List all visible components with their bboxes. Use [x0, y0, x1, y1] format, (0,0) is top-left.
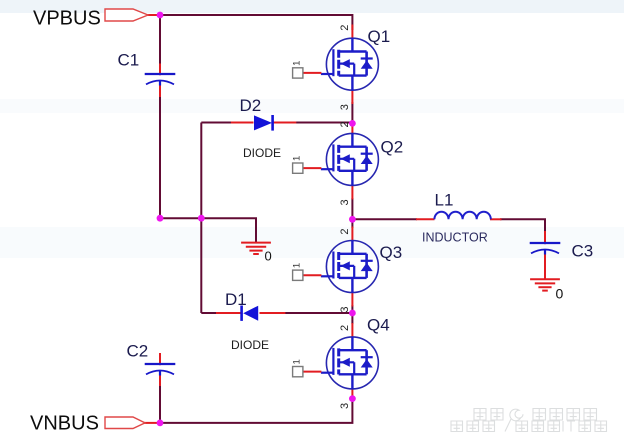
pin stub Q1 drain — [351, 25, 353, 39]
wire node to L1 — [352, 218, 417, 220]
wire D2-D1 left vertical — [200, 123, 202, 314]
pin stub L1 right — [490, 218, 502, 220]
svg-text:2: 2 — [339, 25, 351, 31]
wire Q3 source to D1 node to Q4 drain — [351, 305, 353, 324]
svg-text:D1: D1 — [225, 290, 247, 309]
svg-text:VPBUS: VPBUS — [33, 8, 101, 30]
svg-text:DIODE: DIODE — [243, 146, 281, 160]
wire Q1 source to node — [351, 102, 353, 124]
inductor L1 — [422, 191, 491, 245]
svg-text:2: 2 — [339, 228, 351, 234]
pin stub Q1 source — [351, 90, 353, 104]
pin stub C1 bottom — [159, 86, 161, 98]
node D-rail junction — [198, 215, 205, 222]
diode D1 — [225, 290, 269, 352]
svg-text:DIODE: DIODE — [231, 338, 269, 352]
pin stub C2 bottom — [159, 376, 161, 387]
wire left rail (VPBUS to C1) — [159, 15, 161, 65]
svg-text:L1: L1 — [435, 191, 454, 210]
svg-text:C1: C1 — [118, 51, 140, 70]
watermark text (faint) — [451, 409, 607, 432]
svg-text:0: 0 — [265, 249, 272, 264]
pin stub C3 top — [544, 231, 546, 244]
svg-text:Q2: Q2 — [381, 138, 404, 157]
pin stub L1 left — [416, 218, 435, 220]
pin stub D2 cathode — [274, 122, 297, 124]
wire D2 left — [201, 122, 232, 124]
node mid-left junction — [157, 215, 164, 222]
svg-text:C3: C3 — [572, 242, 594, 261]
svg-text:1: 1 — [292, 156, 303, 161]
node L1 junction — [349, 216, 356, 223]
pin stub VPBUS port — [147, 14, 159, 16]
port VPBUS — [33, 8, 148, 30]
wire mid node to ground — [160, 218, 256, 242]
svg-text:1: 1 — [292, 359, 303, 364]
pin stub Q2 source — [351, 185, 353, 199]
svg-text:3: 3 — [339, 104, 351, 110]
capacitor C1 — [118, 51, 176, 86]
svg-text:0: 0 — [556, 286, 564, 302]
svg-text:VNBUS: VNBUS — [30, 413, 99, 435]
svg-text:2: 2 — [339, 325, 351, 331]
wire L1 to C3 — [500, 219, 545, 233]
svg-text:Q4: Q4 — [367, 316, 390, 335]
transistor Q3 — [292, 228, 403, 312]
node D1 junction — [349, 310, 356, 317]
svg-text:3: 3 — [339, 403, 351, 409]
pin stub Q3 drain — [351, 227, 353, 241]
pin stub D2 anode — [231, 122, 254, 124]
svg-text:D2: D2 — [240, 96, 262, 115]
ground 0 (C3) — [530, 279, 563, 301]
pin stub Q4 drain — [351, 323, 353, 337]
node VNBUS junction — [157, 420, 164, 427]
svg-text:1: 1 — [292, 263, 303, 268]
wire C2 to VNBUS rail — [159, 384, 161, 423]
transistor Q2 — [292, 121, 404, 205]
svg-text:1: 1 — [292, 61, 303, 66]
wire D2 right to Q1/Q2 node — [295, 122, 352, 124]
node Q1/Q2/D2 junction — [349, 120, 356, 127]
svg-text:INDUCTOR: INDUCTOR — [422, 231, 488, 245]
capacitor C3 — [530, 242, 594, 261]
svg-text:C2: C2 — [127, 342, 149, 361]
pin stub Q4 source — [351, 389, 353, 398]
pin stub D1 cathode — [216, 312, 241, 314]
transistor Q4 — [292, 316, 390, 409]
svg-text:Q1: Q1 — [368, 27, 391, 46]
capacitor C2 — [127, 342, 176, 376]
pin stub VNBUS port — [144, 422, 159, 424]
wire D1 right to node — [284, 312, 352, 314]
wire D1 left — [201, 312, 217, 314]
wire C1 to mid node — [159, 95, 161, 218]
diode D2 — [240, 96, 282, 160]
wire VNBUS bottom rail to Q4 source — [160, 398, 353, 423]
svg-text:3: 3 — [339, 199, 351, 205]
pin stub Q2 drain — [351, 126, 353, 133]
pin stub C1 top — [159, 64, 161, 76]
pin stub D1 anode — [260, 312, 286, 314]
port VNBUS — [30, 413, 145, 435]
pin stub Q3 source — [351, 293, 353, 307]
wire VPBUS top rail — [160, 15, 353, 30]
ground 0 (mid) — [241, 232, 272, 264]
node VPBUS junction — [157, 12, 164, 19]
transistor Q1 — [292, 25, 391, 111]
pin stub C2 top — [159, 353, 161, 365]
pin stub C3 bottom — [544, 255, 546, 279]
node Q4 source junction — [349, 395, 356, 402]
svg-text:Q3: Q3 — [380, 243, 403, 262]
wire Q2 source to Q3 drain — [351, 198, 353, 228]
